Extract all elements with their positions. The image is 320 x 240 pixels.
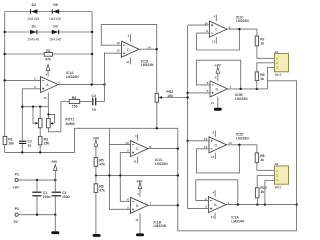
potentiometer POT1b [47,107,55,128]
wire R5 R6 column [95,166,97,234]
svg-text:POT1: POT1 [65,118,74,122]
resistor R9 1k [255,72,264,81]
power stubs IC2A [214,190,216,219]
wire diode row 2 [5,31,92,33]
junction dots [156,127,158,129]
capacitor C2 1u [19,139,32,147]
svg-text:47k: 47k [99,162,105,166]
junction dots [3,79,5,81]
wire diode row 1 [5,11,92,13]
ground IC2B [217,97,219,108]
junction dots [238,28,240,30]
svg-text:LM324N: LM324N [235,97,248,101]
wire ground rail y152 and jog up to bias line y128 [5,128,178,152]
svg-text:P2: P2 [15,207,19,211]
wire IC2B out riser to MK3 pin3 [268,67,275,89]
capacitor C1 100u [32,191,50,199]
wire IC1C pin10 from riser x109 [109,144,130,146]
svg-text:+9V: +9V [215,64,222,68]
svg-text:1k: 1k [260,41,264,45]
svg-text:C: C [136,147,139,151]
svg-text:LM324N: LM324N [154,224,167,228]
svg-text:1N4148: 1N4148 [49,38,61,42]
P1 terminal [13,172,20,189]
svg-text:1k: 1k [260,190,264,194]
wire MK2 pin3 riser [265,181,275,205]
svg-text:MK3: MK3 [275,73,282,77]
svg-text:K1: K1 [275,50,279,54]
resistor R4 150 [69,96,80,109]
wire POT1b bottom to R4 [48,102,69,132]
ground IC1B [139,213,141,233]
wire IC2D pin12 feedback loop [197,145,240,173]
resistor R6 47k [94,184,105,193]
wire rail y175 R5R6 junction to x178 [96,174,178,176]
op-amp IC2A [208,197,226,213]
power stubs IC1C [137,134,139,163]
svg-text:MK2: MK2 [275,185,282,189]
wire IC2D pin13 from rail [188,140,209,142]
wire IC2C pin9 feedback loop [197,29,240,50]
svg-text:+9V: +9V [93,136,100,140]
wire MK2 pin2 to R10 top [257,176,274,188]
wire riser x109 (bias to IC1B pin5) [109,128,130,209]
svg-text:11: 11 [211,215,215,219]
svg-text:LM324N: LM324N [236,136,249,140]
chain rail x178 [178,128,297,231]
op-amp IC2C [210,21,228,37]
wire IC1C output [148,148,178,150]
wire IC2B pin6 feedback loop [196,60,240,89]
svg-text:C: C [215,28,218,32]
junction dots [186,92,188,94]
svg-text:LM324N: LM324N [66,75,79,79]
svg-text:1N4148: 1N4148 [27,38,39,42]
wire PR2 bottom to bias rail [156,102,158,128]
wire branch to right edge vertical [268,81,297,231]
svg-text:100u: 100u [43,195,51,199]
svg-text:LM324N: LM324N [236,19,249,23]
junction dots [91,83,93,85]
junction dots [21,106,23,108]
P2 terminal [14,207,19,224]
svg-text:150: 150 [72,105,78,109]
resistor R10 1k [255,186,266,198]
wire R1 bottom [4,145,6,153]
wire IC1D pin13 feedback loop [101,24,156,49]
node diode rail junctions [3,31,5,33]
svg-text:LM324N: LM324N [141,63,154,67]
power stub pin11 IC1A to bias rail [47,93,49,107]
op-amp IC2B [210,81,228,97]
wire C4 right to U1A output riser [96,101,104,103]
junction dots [295,203,297,205]
resistor R5 47k [94,158,105,167]
wire P1 row [18,179,55,181]
potentiometer PR2 10k [155,90,173,102]
svg-text:1k: 1k [260,77,264,81]
diode D6 1N4148 [49,3,61,21]
svg-text:1u: 1u [92,108,96,112]
svg-text:2x50k: 2x50k [65,122,75,126]
wire R9 bottom to IC2B output [256,81,258,89]
junction dots [36,179,38,181]
connector MK2 [275,162,289,189]
svg-text:D1: D1 [32,25,36,29]
op-amp IC1B [131,197,149,213]
svg-text:+9V: +9V [51,160,58,164]
wire IC1B output [148,204,178,206]
wire R8 bottom to MK2 pin1 [257,162,275,170]
svg-text:+9V: +9V [13,186,20,190]
svg-text:11: 11 [126,60,130,64]
svg-text:150: 150 [44,141,50,145]
wire U1A pin2 from left rail [5,79,41,81]
junction dots [238,144,240,146]
power stubs IC2D [214,131,216,160]
wire R7 bottom to MK3 pin1 [257,46,275,59]
svg-text:LM324N: LM324N [155,162,168,166]
wire P2 row [18,214,55,216]
op-amp IC1A [41,77,59,93]
power +9V IC2B [217,74,219,81]
op-amp IC1C [130,141,148,157]
svg-text:47k: 47k [45,58,51,62]
wire right vertical rail x92 [91,12,93,85]
wire C2 bottom [21,144,23,152]
junction dots [237,203,239,205]
junction dots [156,48,158,50]
capacitor C4 1u [91,94,96,112]
connector MK3 [275,50,289,77]
svg-text:0V: 0V [14,220,19,224]
wire bias rail y107 [22,106,48,108]
wire IC2A pin2 feedback loop [196,180,238,205]
wire IC2B output [228,88,268,90]
wire IC1C pin9 drop to rail y175 [120,153,130,202]
junction dots [36,214,38,216]
junction dots [21,151,23,153]
wire IC1D output to PR2 [139,49,157,93]
op-amp IC2D [209,137,227,153]
resistor R1 10k [3,136,14,145]
power stubs IC1D [130,34,132,64]
resistor R8 1k [255,153,264,163]
wires C1 C3 leads [37,180,55,215]
svg-text:11: 11 [44,96,48,100]
capacitor C3 100u [52,191,70,199]
svg-text:D: D [215,143,218,147]
svg-text:1N4148: 1N4148 [49,17,61,21]
svg-text:12: 12 [204,145,208,149]
svg-text:11: 11 [135,218,139,222]
wire IC2D output to R8 [227,145,257,153]
ground under R6 [93,234,101,237]
wire IC2B pin5 from rail [188,92,210,94]
svg-text:100u: 100u [62,195,70,199]
junction dots [240,88,242,90]
wire U1A output [57,84,105,86]
ground under P2 net [54,215,56,232]
svg-text:D: D [127,48,130,52]
svg-text:10k: 10k [8,141,14,145]
wire reference rail x187.6 [187,25,189,209]
svg-text:13: 13 [116,41,120,45]
wire IC2C pin10 from rail [188,24,210,26]
svg-text:D6: D6 [53,3,57,7]
svg-text:P1: P1 [15,172,19,176]
wire left rail [4,12,6,137]
wire R4 to C4 [80,101,93,103]
svg-text:R2: R2 [46,49,50,53]
svg-text:K2: K2 [275,162,279,166]
power +9V IC1B [139,189,141,197]
junction dots [177,147,179,149]
wire U1A pin3 [22,89,40,141]
wire IC1D pin12 [105,52,122,54]
wire IC2C output to R7 [227,29,257,36]
op-amp IC1D [122,41,140,57]
potentiometer POT1a [33,107,42,128]
svg-text:R4: R4 [72,96,76,100]
svg-text:1u: 1u [27,143,31,147]
svg-text:12: 12 [116,49,120,53]
svg-text:D4: D4 [32,3,36,7]
resistor R7 1k [255,36,264,46]
wire MK3 pin2 to R9 top [257,63,275,72]
diode D1 1N4148 [27,25,39,42]
svg-text:47k: 47k [99,189,105,193]
svg-text:11: 11 [133,159,137,163]
junction dots [95,174,97,176]
svg-text:A: A [214,203,217,207]
wire IC2A output rail [226,204,297,206]
wire PR2 wiper to ref rail [163,97,187,99]
svg-text:1N4148: 1N4148 [27,17,39,21]
svg-text:C4: C4 [91,94,95,98]
svg-text:11: 11 [212,40,216,44]
resistor R2 47k [44,49,52,62]
svg-text:D3: D3 [53,25,57,29]
svg-text:LM324N: LM324N [231,219,244,223]
svg-text:11: 11 [211,101,215,105]
wire riser x104.5 (U1A out to IC1D pin12 and C4) [104,52,106,101]
diode D3 1N4148 [49,25,61,42]
wire R10 bottom to output rail [256,198,258,205]
power stub +9V IC1A [47,71,49,77]
wire IC2A pin3 from rail [188,208,209,210]
svg-text:+9V: +9V [136,180,143,184]
svg-text:1k: 1k [260,158,264,162]
power stubs IC2C [215,15,217,44]
wire R2 row [5,53,92,55]
svg-text:11: 11 [211,155,215,159]
diode D4 1N4148 [27,3,39,21]
resistor R3 150 [38,128,49,153]
